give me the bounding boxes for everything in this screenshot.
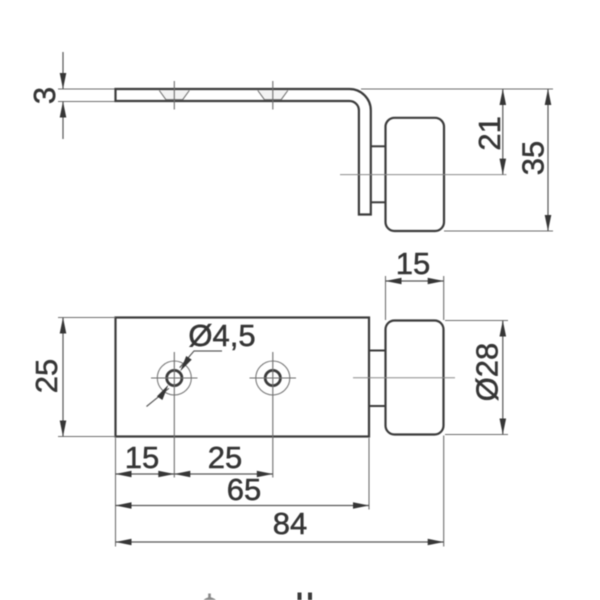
plan view: extension line left bottom xyxy=(58,436,116,438)
hole 1: horizontal crosshair xyxy=(151,377,198,379)
dimension 21: arrow up xyxy=(500,89,507,105)
hole 2: horizontal crosshair xyxy=(250,377,297,379)
dimension 35: arrow down xyxy=(545,215,552,231)
svg-text:84: 84 xyxy=(273,506,307,541)
svg-text:3: 3 xyxy=(27,87,62,104)
hole 2: inner circle xyxy=(265,370,280,385)
dimension 15 roller: extension line right upper xyxy=(443,276,445,320)
hole 2: vertical crosshair / extension xyxy=(272,352,274,478)
leader tail lower xyxy=(147,388,169,406)
dimension 25 (hole spacing): arrow left xyxy=(174,471,190,478)
axle stub bottom line (side view) xyxy=(371,201,386,203)
side view: extension line left top xyxy=(58,88,116,90)
dimension 3: arrow up xyxy=(60,102,67,118)
svg-text:Ø4,5: Ø4,5 xyxy=(188,318,255,353)
dimension 25 (hole spacing): arrow right xyxy=(257,471,273,478)
countersink mark hole 2 (side view) xyxy=(258,91,288,100)
dimension 21: dim line xyxy=(502,89,504,175)
dimension 3: dim line lower segment xyxy=(62,102,64,140)
dimension 15 (hole offset): dim line xyxy=(116,473,175,475)
leader arrow lower (points to hole) xyxy=(157,385,169,400)
dimension 65: dim line xyxy=(116,505,370,507)
hole 1: inner circle xyxy=(167,370,182,385)
plan view: extension line left top xyxy=(58,317,116,319)
hole 2: countersink circle xyxy=(256,361,290,395)
dimension 65: arrow left xyxy=(116,502,132,509)
dimension 84: dim line xyxy=(116,541,444,543)
roller (plan view) xyxy=(386,321,444,435)
roller (side view) xyxy=(386,118,445,231)
leader line for hole diameter xyxy=(180,351,222,368)
svg-text:25: 25 xyxy=(29,359,64,393)
svg-text:65: 65 xyxy=(227,472,261,507)
plan view: plate rectangle xyxy=(116,318,370,437)
leader arrow upper (points to hole) xyxy=(180,356,192,371)
dimension 84: arrow right xyxy=(428,539,444,546)
axle stub bottom line (plan view) xyxy=(369,405,386,407)
dimension 25 (hole spacing): dim line xyxy=(174,473,272,475)
dimension 25 (plate width): arrow up xyxy=(60,318,67,334)
cropped glyph (dark) at bottom right xyxy=(298,593,313,600)
hole 1: countersink circle xyxy=(157,361,191,395)
diameter 28: extension line bottom xyxy=(445,434,508,436)
dimension 35: dim line xyxy=(547,89,549,231)
dimension 15 roller: dim line xyxy=(386,280,444,282)
axle stub top line (side view) xyxy=(371,145,386,147)
dimension 15 roller: arrow left xyxy=(386,278,402,285)
diameter 28: arrow down xyxy=(500,419,507,435)
diameter 28: arrow up xyxy=(500,321,507,337)
dimension 15 roller: extension line left xyxy=(385,276,387,320)
plate with bent leg (side view outline) xyxy=(116,89,371,215)
lower dims: extension line plate left xyxy=(115,438,117,547)
dimension 35: arrow up xyxy=(545,89,552,105)
diameter 28: dim line xyxy=(502,321,504,435)
roller axis centerline (plan view) xyxy=(353,377,455,379)
hole 1: vertical crosshair / extension xyxy=(173,352,175,478)
countersink mark hole 1 (side view) xyxy=(159,91,189,100)
svg-text:25: 25 xyxy=(208,440,242,475)
dimension 25 (plate width): arrow down xyxy=(60,421,67,437)
dimension 15 (hole offset): arrow left xyxy=(116,471,132,478)
dimension 3: arrow down xyxy=(60,73,67,89)
svg-text:21: 21 xyxy=(472,116,507,150)
dimension 84: arrow left xyxy=(116,539,132,546)
svg-text:15: 15 xyxy=(396,246,430,281)
countersink hole 1 centerline xyxy=(173,81,175,110)
axle stub top line (plan view) xyxy=(369,350,386,352)
extension line right top (from plate top) xyxy=(361,88,553,90)
svg-text:35: 35 xyxy=(516,141,551,175)
svg-text:15: 15 xyxy=(125,440,159,475)
dimension 25 (plate width): dim line xyxy=(62,318,64,437)
dimension 21: arrow down xyxy=(500,159,507,175)
cropped glyph (gray) at bottom left xyxy=(204,594,217,600)
diameter 28: extension line top xyxy=(445,320,508,322)
dimension 3: dim line upper segment xyxy=(62,52,64,89)
dimension 15 roller: arrow right xyxy=(428,278,444,285)
roller axis centerline (side view) xyxy=(340,174,507,176)
extension line right bottom (from roller bottom) xyxy=(444,230,553,232)
lower dims: extension line roller right xyxy=(443,436,445,547)
dimension 65: arrow right xyxy=(353,502,369,509)
lower dims: extension line plate right xyxy=(368,438,370,510)
dimension 15 (hole offset): arrow right xyxy=(158,471,174,478)
side view: extension line left bottom xyxy=(58,101,116,103)
svg-text:Ø28: Ø28 xyxy=(470,343,505,402)
countersink hole 2 centerline xyxy=(272,81,274,110)
